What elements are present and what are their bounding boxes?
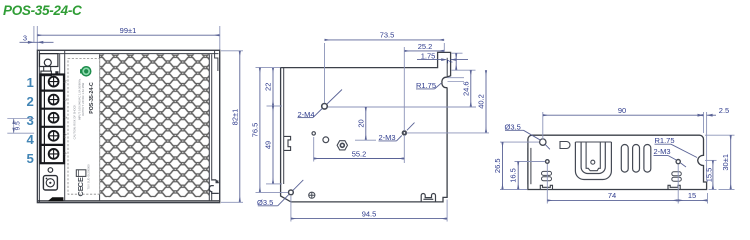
terminal legend strip [63,80,68,156]
dim 82±1 extension lines [221,51,243,203]
dim 7 [452,53,476,70]
terminal numbers [26,75,34,166]
svg-text:24.6: 24.6 [461,81,470,96]
ground symbol [309,192,315,198]
dim 15 [707,193,709,204]
hex vent area [100,54,210,197]
svg-text:15.5: 15.5 [704,168,713,183]
dim 99±1 extension lines [37,26,220,50]
svg-text:5: 5 [26,151,33,166]
black trapezoid notch [48,197,64,201]
hole B [323,137,329,143]
svg-text:Ø3.5: Ø3.5 [257,198,273,207]
left flange double line [530,148,532,184]
dim 94.5 [290,196,292,222]
M4 right extension [328,106,476,108]
case outline middle [281,52,451,202]
case thick bottom line [38,200,219,202]
feet right [668,185,680,189]
svg-text:30±1: 30±1 [721,154,730,171]
feet left [540,185,552,189]
dim 2.5 [707,114,716,116]
hole M3 side [676,160,680,164]
hole top-left Ø3.5 [540,139,546,145]
LED box [43,176,57,190]
M3 leader [397,123,415,141]
dim 20 [365,107,367,140]
label logo [80,69,82,73]
svg-text:2.5: 2.5 [719,106,729,115]
dim 30±1 [705,134,735,136]
case outline front [37,50,219,202]
hole M3 [403,131,407,135]
left rib teeth [284,136,291,150]
top box circle [44,59,51,66]
connector below box [43,67,45,72]
svg-text:POS-35-24-C: POS-35-24-C [89,82,95,114]
Ø3.5 leader [278,180,304,206]
case inner left line [38,51,40,202]
dim 55.2 [313,137,315,162]
svg-text:-V: -V [63,152,68,156]
svg-text:74: 74 [608,191,616,200]
dim 90 [543,112,707,180]
dim 3 [33,26,35,43]
svg-text:49: 49 [263,141,272,149]
svg-text:82±1: 82±1 [231,109,240,126]
svg-text:TUV SUD ID:200000: TUV SUD ID:200000 [87,164,91,189]
potentiometer circle [48,168,53,173]
top small box with circle [40,54,58,67]
hex standoff [337,141,347,150]
svg-text:N: N [63,80,68,83]
dim 73.5 [325,43,445,103]
inner tab wall line [446,58,448,77]
vents 3 slots [621,145,628,173]
dim 22 [272,68,274,106]
svg-text:76.5: 76.5 [250,123,259,138]
two ovals left [542,171,552,175]
bottom-right notches [211,181,213,193]
title POS-35-24-C [3,3,81,18]
svg-text:2: 2 [26,94,33,109]
label small print [72,78,90,189]
dim 15.5 [705,159,717,161]
Ø3.5 leader [524,130,550,149]
top-right notch [215,51,218,71]
dim 26.5 [500,141,539,143]
svg-text:22: 22 [263,83,272,91]
svg-text:2-M3: 2-M3 [654,147,671,156]
svg-text:2-M3: 2-M3 [379,133,396,142]
svg-text:55.2: 55.2 [352,149,367,158]
svg-text:OUTPUT: 24VDC 1.5A 36W: OUTPUT: 24VDC 1.5A 36W [81,82,85,116]
separator line terminal panel / label [64,51,66,201]
inner left flange line [283,68,285,184]
svg-text:94.5: 94.5 [362,209,377,218]
svg-text:3: 3 [23,34,27,43]
svg-text:1: 1 [26,75,33,90]
LED circle [46,179,54,187]
dim 76.5 [256,67,281,69]
svg-text:40.2: 40.2 [476,94,485,109]
dim 24.6 [470,70,472,107]
svg-text:CE: CE [76,177,85,187]
svg-text:15: 15 [688,191,696,200]
case outline side [528,135,707,189]
U bracket inner with tab [586,142,600,171]
svg-text:90: 90 [618,106,626,115]
U bracket outer [575,142,611,180]
svg-text:73.5: 73.5 [380,31,395,40]
U bracket circle [591,160,595,164]
two ovals right [672,172,682,176]
hole A small [312,132,315,135]
dim 82±1 [239,51,241,203]
case inner top line [39,53,219,55]
terminal block [41,75,64,164]
svg-text:R1.75: R1.75 [655,136,675,145]
label CE marks [76,170,86,197]
U bracket middle [581,142,605,174]
M3 side leader [668,156,686,168]
svg-text:3: 3 [26,113,33,128]
svg-text:4: 4 [26,132,34,147]
D feature [560,142,570,149]
hole bottom-left Ø3.5 [289,190,294,195]
svg-text:Ø3.5: Ø3.5 [505,122,521,131]
svg-text:16.5: 16.5 [509,168,518,183]
small hole [546,160,550,164]
M4 leader [313,90,342,118]
svg-text:2-M4: 2-M4 [298,110,315,119]
dim 25.2 [404,50,444,52]
dim 74 [547,164,678,204]
terminal screws [49,77,59,159]
dim 49 [272,106,274,184]
svg-text:⏚: ⏚ [63,116,68,120]
svg-text:25.2: 25.2 [418,42,433,51]
svg-text:CE: CE [76,186,85,196]
M3 right extension [407,132,490,134]
dim 16.5 [515,161,546,163]
svg-text:26.5: 26.5 [493,158,502,173]
U bracket top line [575,141,611,143]
svg-text:20: 20 [356,119,365,127]
svg-text:+V: +V [63,133,68,138]
svg-text:INPUT: 100-240VAC 1.0A 50/60Hz: INPUT: 100-240VAC 1.0A 50/60Hz [78,78,82,120]
dim 40.2 [485,70,487,133]
svg-text:99±1: 99±1 [120,26,137,35]
hole M4 [322,104,328,110]
svg-text:7: 7 [446,60,455,64]
svg-text:CAUTION: RISK OF SHOCK: CAUTION: RISK OF SHOCK [72,104,76,139]
bottom clip [421,194,435,202]
dim 9.5 [7,119,34,134]
hex area borders [99,54,101,200]
label dashed border [68,58,100,194]
dim 99±1 [37,34,220,36]
svg-text:9.5: 9.5 [15,121,22,130]
